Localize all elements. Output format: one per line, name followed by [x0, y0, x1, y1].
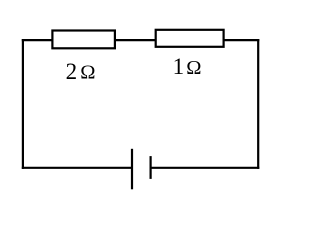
wire left vertical: [22, 39, 24, 169]
wire bottom-right segment (right corner to battery): [151, 167, 260, 169]
wire top-right segment (R2 to right corner): [224, 39, 260, 41]
resistor R1: [52, 31, 115, 49]
wire right vertical: [257, 39, 259, 169]
svg-text:1: 1: [173, 54, 185, 79]
svg-text:Ω: Ω: [80, 62, 95, 84]
battery V1 negative plate (short): [150, 156, 152, 179]
battery V1 positive plate (long): [131, 149, 133, 190]
resistor R2: [156, 30, 224, 47]
svg-text:2: 2: [66, 59, 78, 84]
svg-text:Ω: Ω: [186, 57, 201, 79]
wire between R1 and R2: [115, 39, 156, 41]
wire top-left segment (left corner to R1): [22, 39, 53, 41]
wire bottom-left segment (battery to left corner): [22, 167, 132, 169]
